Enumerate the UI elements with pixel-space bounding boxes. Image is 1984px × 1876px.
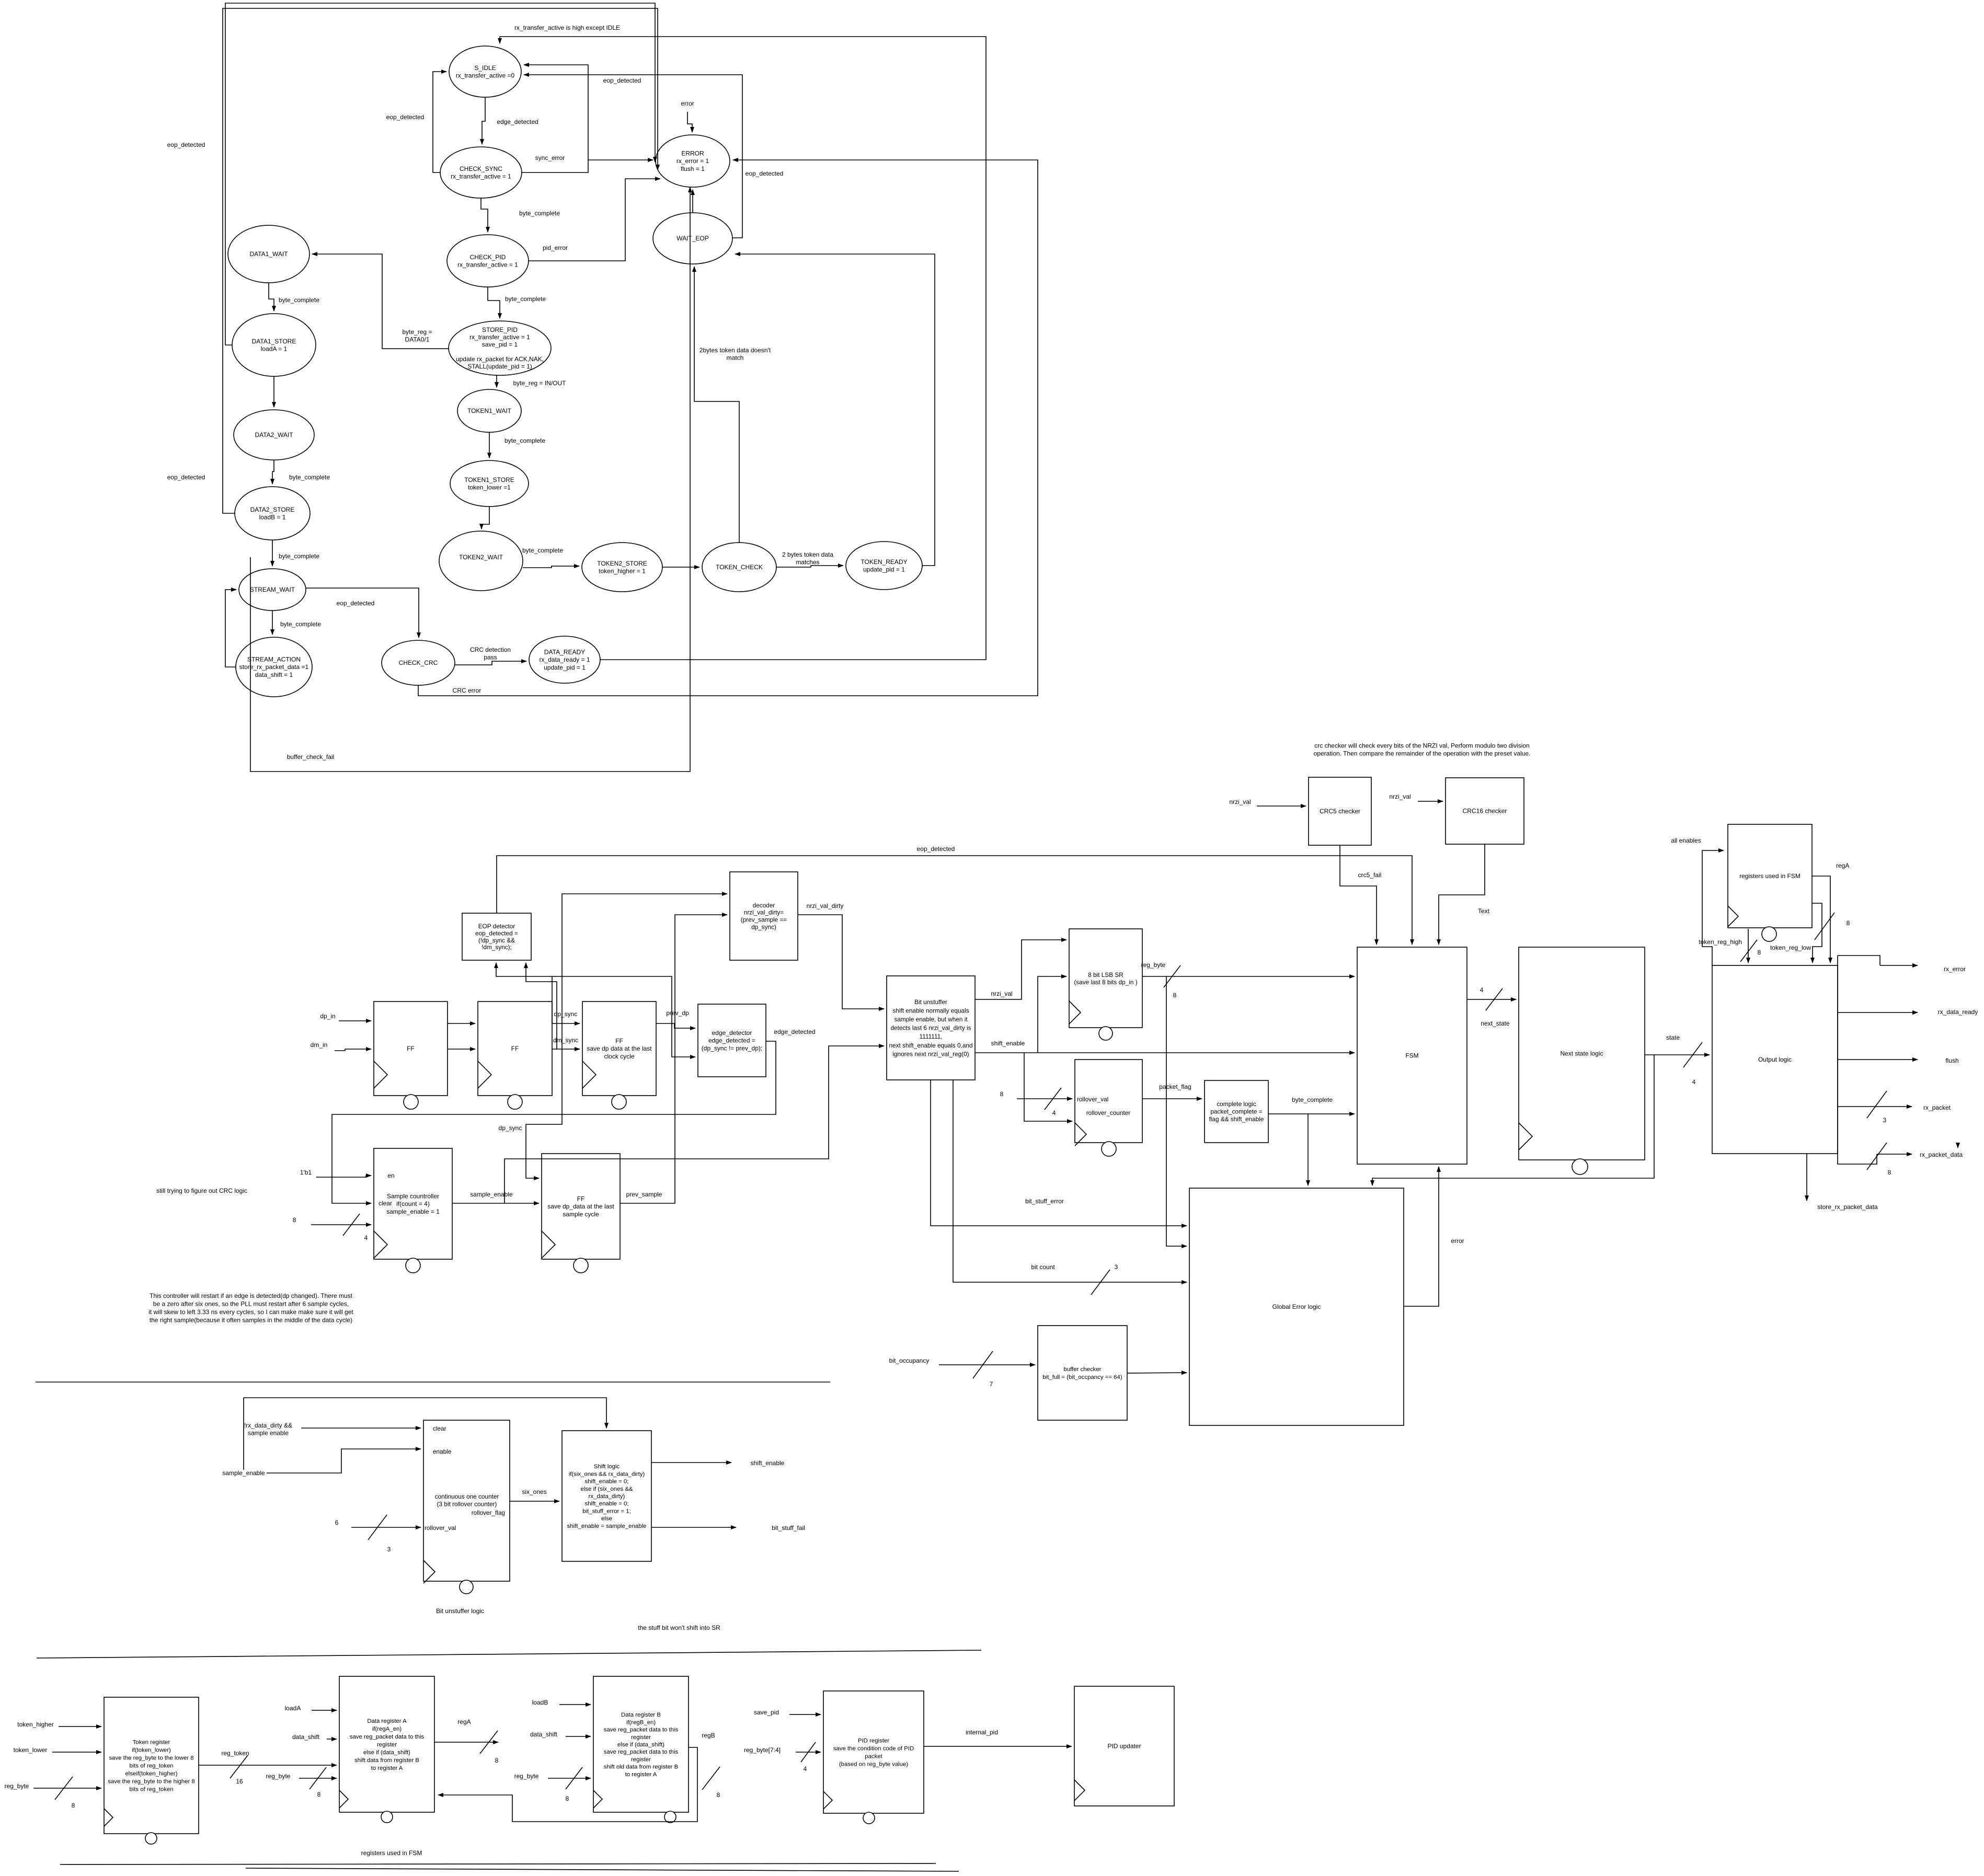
register Data register B: [593, 1676, 689, 1823]
svg-text:else if (six_ones &&: else if (six_ones &&: [580, 1486, 633, 1492]
label six_ones: [522, 1488, 546, 1495]
label state: [1666, 1034, 1680, 1041]
svg-text:nrzi_val: nrzi_val: [1229, 798, 1251, 805]
flip-flop FF3 save dp data: [582, 1002, 656, 1109]
bus slash 4: [343, 1214, 360, 1236]
bus slash state: [1683, 1042, 1702, 1067]
svg-text:prev_sample: prev_sample: [626, 1191, 662, 1198]
svg-text:8: 8: [1847, 919, 1850, 927]
label byte_complete: [280, 620, 321, 628]
label rx_transfer_active is high except IDLE: [514, 24, 620, 31]
svg-text:reg_byte: reg_byte: [514, 1773, 539, 1780]
label reg_byte: [1141, 961, 1166, 969]
svg-text:to register A: to register A: [371, 1765, 403, 1771]
wire DATA1_STORE to DATA2_WAIT: [273, 376, 274, 407]
wire STORE_PID to DATA1_WAIT: [312, 254, 449, 349]
block PID updater: [1074, 1686, 1174, 1806]
block EOP detector: [462, 913, 531, 960]
wire WAIT_EOP to S_IDLE eop_detected: [524, 75, 742, 238]
block CRC5 checker: [1309, 777, 1371, 845]
block Global Error logic: [1189, 1188, 1404, 1425]
wire nrzi_val to 8 bit SR: [975, 940, 1066, 999]
svg-text:byte_complete: byte_complete: [279, 553, 319, 560]
pin rollover_val: [425, 1524, 456, 1532]
state DATA_READY: [529, 636, 600, 683]
svg-text:state: state: [1666, 1034, 1680, 1041]
wire reg_byte branch to Global Error logic: [1166, 976, 1187, 1246]
separator line below bit unstuffer section: [37, 1650, 981, 1658]
label eop_detected: [746, 170, 784, 177]
flip-flop FF2: [478, 1002, 552, 1109]
wire rx_data_ready output: [1838, 1012, 1918, 1013]
svg-text:continuous one counter: continuous one counter: [435, 1493, 499, 1500]
svg-text:8: 8: [717, 1791, 720, 1799]
svg-text:CRC16 checker: CRC16 checker: [1463, 808, 1507, 815]
svg-text:byte_reg =: byte_reg =: [402, 328, 432, 336]
svg-text:to register A: to register A: [625, 1771, 657, 1778]
wire CHECK_CRC to DATA_READY: [455, 661, 526, 665]
label byte_complete: [279, 553, 319, 560]
svg-text:edge_detected: edge_detected: [774, 1028, 815, 1035]
label rx_error: [1944, 965, 1966, 973]
svg-text:DATA0/1: DATA0/1: [405, 336, 430, 343]
label continuous one counter: [435, 1493, 499, 1508]
label nrzi_val: [991, 990, 1012, 997]
state TOKEN_CHECK: [702, 543, 776, 592]
wire 1'b1 to en: [316, 1176, 371, 1177]
svg-text:all enables: all enables: [1671, 837, 1701, 844]
label eop_detected: [337, 600, 375, 607]
wire CHECK_CRC CRC error to ERROR: [418, 160, 1038, 696]
wire rx_error output: [1880, 965, 1918, 966]
svg-text:flush: flush: [1945, 1057, 1958, 1064]
wire next_state FSM to Next state logic: [1467, 999, 1516, 1000]
state DATA2_WAIT: [234, 410, 314, 460]
svg-text:byte_complete: byte_complete: [279, 296, 319, 304]
label CRC error: [453, 687, 481, 694]
label 8: [1847, 919, 1850, 927]
svg-text:regA: regA: [457, 1718, 471, 1725]
svg-text:1'b1: 1'b1: [300, 1169, 312, 1176]
svg-text:else: else: [601, 1516, 612, 1522]
svg-text:packet: packet: [865, 1754, 882, 1760]
bus slash regA: [1815, 913, 1834, 940]
svg-text:store_rx_packet_data: store_rx_packet_data: [1817, 1203, 1878, 1211]
svg-text:update_pid = 1: update_pid = 1: [544, 664, 586, 671]
separator line bottom second: [246, 1868, 959, 1871]
svg-text:if(count = 4): if(count = 4): [396, 1200, 430, 1207]
label byte_complete: [1292, 1096, 1333, 1103]
svg-text:byte_complete: byte_complete: [522, 547, 563, 554]
label 8: [1173, 992, 1177, 999]
label 8: [495, 1757, 499, 1764]
label reg_byte[7:4]: [744, 1746, 781, 1754]
svg-text:4: 4: [1692, 1078, 1696, 1086]
label eop_detected: [603, 77, 641, 84]
label token_reg_low: [1770, 944, 1811, 951]
svg-text:next_state: next_state: [1481, 1020, 1510, 1027]
wire reg_byte 7_4 into PID register: [796, 1752, 821, 1753]
state S_IDLE: [449, 46, 521, 97]
wire loop to S_IDLE right upper: [524, 65, 588, 160]
wire dp_sync up to decoder: [562, 894, 727, 1023]
svg-text:detects last 6 nrzi_val_dirty: detects last 6 nrzi_val_dirty is: [890, 1025, 971, 1032]
block 8 bit LSB SR: [1069, 929, 1142, 1040]
bus slash 8: [309, 1767, 326, 1789]
pin en: [387, 1172, 394, 1179]
wire sample_enable up to Shift logic: [244, 1398, 606, 1470]
svg-text:internal_pid: internal_pid: [966, 1729, 998, 1736]
svg-text:shift_enable: shift_enable: [991, 1040, 1025, 1047]
state CHECK_PID: [447, 235, 529, 287]
label CRC detection pass: [470, 646, 511, 661]
wire bit_stuff_fail output: [651, 1527, 736, 1528]
label 3: [1115, 1263, 1118, 1271]
wire clear input: [301, 1428, 421, 1429]
bus slash rx_packet: [1867, 1091, 1887, 1118]
state TOKEN_READY: [846, 542, 922, 590]
label 8: [317, 1791, 321, 1798]
svg-text:Sample countroller: Sample countroller: [387, 1193, 439, 1200]
pin clear: [433, 1425, 446, 1432]
svg-text:DATA2_WAIT: DATA2_WAIT: [255, 431, 293, 439]
svg-text:buffer checker: buffer checker: [1064, 1366, 1102, 1373]
wire bit_occupancy into buffer checker: [939, 1364, 1035, 1365]
label data_shift: [530, 1731, 558, 1738]
wire all enables into registers: [1702, 850, 1724, 965]
wire rollover_val input: [351, 1527, 421, 1528]
svg-text:Next state logic: Next state logic: [1560, 1050, 1603, 1057]
wire buffer_check_fail to ERROR: [250, 187, 690, 772]
svg-text:bits of reg_token: bits of reg_token: [129, 1787, 173, 1793]
label next_state: [1481, 1020, 1510, 1027]
svg-text:error: error: [681, 100, 694, 107]
pin clear: [379, 1200, 392, 1207]
wire bit_full buffer checker to Global Error logic: [1127, 1373, 1187, 1373]
label rx_packet: [1923, 1104, 1951, 1111]
svg-text:8: 8: [495, 1757, 499, 1764]
svg-text:(prev_sample ==: (prev_sample ==: [741, 916, 787, 924]
label dp_sync: [499, 1124, 522, 1132]
label byte_reg = DATA0/1: [402, 328, 432, 343]
svg-text:1111111,: 1111111,: [920, 1033, 943, 1040]
svg-text:reg_byte: reg_byte: [5, 1782, 29, 1790]
svg-text:CRC error: CRC error: [453, 687, 481, 694]
bus slash regB 8: [702, 1767, 720, 1790]
register PID register: [823, 1691, 924, 1824]
wire prev_dp FF3 to edge_detector: [656, 1023, 695, 1028]
label byte_reg = IN/OUT: [513, 379, 566, 387]
arrow mark above rx_packet_data: [1957, 1145, 1958, 1148]
wire eop_detected EOP detector to FSM: [497, 856, 1412, 945]
label 4: [364, 1234, 368, 1241]
label byte_complete: [289, 474, 330, 481]
block Shift logic: [562, 1431, 651, 1561]
label reg_byte: [5, 1782, 29, 1790]
label nrzi_val: [1389, 793, 1410, 800]
wire regB feedback to Data register A: [438, 1747, 697, 1822]
svg-text:else if (data_shift): else if (data_shift): [617, 1742, 664, 1748]
wire rollover_val bus into sample controller: [311, 1224, 371, 1225]
label bit_stuff_error: [1025, 1198, 1064, 1205]
svg-text:byte_complete: byte_complete: [504, 437, 545, 444]
svg-text:save the reg_byte to the highe: save the reg_byte to the higher 8: [108, 1779, 195, 1785]
register Data register A: [339, 1676, 434, 1823]
block Bit unstuffer: [887, 976, 975, 1080]
svg-text:loadA = 1: loadA = 1: [261, 346, 288, 353]
label 16: [236, 1778, 243, 1785]
svg-text:sample_enable = 1: sample_enable = 1: [386, 1208, 440, 1215]
label 2bytes token data doesn't match: [699, 347, 771, 362]
svg-text:it will skew to left 3.33 ns e: it will skew to left 3.33 ns every cycle…: [148, 1308, 353, 1316]
svg-text:CRC5 checker: CRC5 checker: [1320, 808, 1360, 815]
svg-text:eop_detected: eop_detected: [167, 141, 205, 148]
label 8: [1758, 949, 1761, 956]
block FSM: [1357, 947, 1467, 1164]
svg-text:eop_detected: eop_detected: [386, 113, 425, 121]
wire reg_byte into A: [299, 1778, 337, 1779]
bus slash 3: [1091, 1270, 1110, 1295]
label shift_enable: [991, 1040, 1025, 1047]
svg-text:STALL(update_pid = 1): STALL(update_pid = 1): [467, 363, 532, 370]
svg-text:ignores next nrzi_val_reg(0): ignores next nrzi_val_reg(0): [892, 1050, 969, 1057]
wire regA registers to Output logic: [1812, 876, 1830, 963]
wire bit count to Global Error logic: [953, 1080, 1187, 1282]
bus slash 4: [801, 1742, 816, 1762]
svg-text:4: 4: [1052, 1109, 1056, 1117]
label 4: [1052, 1109, 1056, 1117]
wire packet_flag to complete logic: [1142, 1098, 1202, 1099]
bus slash reg_byte: [1164, 965, 1180, 987]
label regA: [457, 1718, 471, 1725]
wire WAIT_EOP to ERROR: [692, 190, 693, 213]
label byte_complete: [519, 210, 560, 217]
svg-text:reg_byte: reg_byte: [266, 1773, 291, 1780]
svg-text:16: 16: [236, 1778, 243, 1785]
state TOKEN2_WAIT: [439, 531, 523, 591]
label regA: [1836, 862, 1849, 869]
caption registers used in FSM: [361, 1849, 422, 1857]
wire state feedback to Global Error logic: [1372, 1055, 1654, 1186]
label byte_complete: [505, 295, 546, 303]
svg-text:STREAM_WAIT: STREAM_WAIT: [250, 586, 295, 593]
svg-text:shift_enable: shift_enable: [751, 1459, 785, 1467]
svg-text:FSM: FSM: [1405, 1052, 1418, 1060]
wire STREAM_WAIT to STREAM_ACTION byte_complete: [272, 611, 273, 635]
svg-text:rx_transfer_active = 1: rx_transfer_active = 1: [451, 173, 511, 180]
label 8: [717, 1791, 720, 1799]
state WAIT_EOP: [653, 213, 732, 264]
svg-text:rx_transfer_active = 1: rx_transfer_active = 1: [457, 261, 518, 269]
svg-text:2bytes token data doesn't: 2bytes token data doesn't: [699, 347, 771, 354]
svg-text:rx_data_dirty): rx_data_dirty): [589, 1493, 625, 1500]
label token_lower: [14, 1746, 48, 1754]
wire bit_stuff_error to Global Error logic: [931, 1080, 1187, 1226]
wire rx_packet_data output: [1877, 1154, 1912, 1155]
label rollover_counter: [1086, 1109, 1131, 1117]
pin rollover_flag: [472, 1509, 505, 1516]
wire CHECK_SYNC to S_IDLE eop_detected: [433, 72, 446, 172]
svg-text:TOKEN1_STORE: TOKEN1_STORE: [464, 476, 514, 484]
label 8: [566, 1795, 569, 1802]
wire rollover_val into rollover counter: [1017, 1098, 1072, 1099]
svg-text:STREAM_ACTION: STREAM_ACTION: [247, 656, 301, 663]
svg-text:the stuff bit won't shift into: the stuff bit won't shift into SR: [638, 1624, 720, 1631]
svg-text:rx_error = 1: rx_error = 1: [676, 157, 709, 165]
svg-text:Bit unstuffer: Bit unstuffer: [914, 998, 947, 1006]
wire DATA1_WAIT to DATA1_STORE byte_complete: [269, 283, 274, 311]
block buffer checker: [1038, 1326, 1127, 1420]
svg-text:shift_enable = sample_enable: shift_enable = sample_enable: [567, 1523, 647, 1529]
svg-text:byte_complete: byte_complete: [1292, 1096, 1333, 1103]
svg-text:packet_complete =: packet_complete =: [1210, 1108, 1262, 1115]
wire data_shift into B: [566, 1736, 591, 1737]
svg-text:pass: pass: [484, 654, 497, 661]
svg-text:token_lower =1: token_lower =1: [468, 484, 511, 491]
svg-text:DATA1_STORE: DATA1_STORE: [252, 338, 296, 345]
label eop_detected: [917, 845, 955, 853]
label 1'b1: [300, 1169, 312, 1176]
wire output bundle column: [1838, 956, 1880, 1164]
label dp_sync: [554, 1010, 578, 1018]
block Sample countroller: [374, 1148, 452, 1273]
svg-text:dp_in: dp_in: [320, 1012, 335, 1020]
label buffer_check_fail: [287, 753, 335, 761]
svg-text:DATA2_STORE: DATA2_STORE: [250, 506, 295, 513]
svg-text:Bit unstuffer logic: Bit unstuffer logic: [436, 1607, 484, 1615]
label eop_detected: [167, 141, 205, 148]
wire sample_enable to FF4: [452, 1203, 539, 1204]
svg-text:loadB: loadB: [532, 1699, 548, 1706]
svg-text:register: register: [377, 1742, 397, 1748]
svg-text:dm_in: dm_in: [311, 1041, 328, 1049]
svg-text:DATA_READY: DATA_READY: [544, 649, 585, 656]
svg-text:8: 8: [566, 1795, 569, 1802]
svg-text:FF: FF: [615, 1038, 623, 1045]
svg-text:dp_sync: dp_sync: [499, 1124, 522, 1132]
svg-text:regA: regA: [1836, 862, 1849, 869]
svg-text:rx_transfer_active =0: rx_transfer_active =0: [456, 72, 515, 79]
svg-text:prev_dp: prev_dp: [666, 1009, 689, 1017]
svg-text:loadB = 1: loadB = 1: [259, 514, 285, 521]
wire save_pid: [789, 1714, 821, 1715]
label token_reg_high: [1699, 938, 1742, 946]
svg-text:if(six_ones && rx_data_dirty): if(six_ones && rx_data_dirty): [569, 1471, 645, 1477]
label reg_token: [221, 1750, 249, 1757]
svg-text:FF: FF: [511, 1045, 519, 1052]
state DATA2_STORE: [235, 487, 310, 540]
label 4: [1692, 1078, 1696, 1086]
svg-text:clear: clear: [379, 1200, 392, 1207]
svg-text:eop_detected: eop_detected: [167, 474, 205, 481]
block decoder: [730, 872, 798, 960]
svg-text:TOKEN_READY: TOKEN_READY: [861, 558, 907, 566]
svg-text:byte_complete: byte_complete: [289, 474, 330, 481]
svg-text:store_rx_packet_data =1: store_rx_packet_data =1: [239, 663, 309, 671]
label Text: [1478, 907, 1490, 915]
wire error Global Error logic to FSM: [1404, 1167, 1439, 1306]
svg-text:rollover_counter: rollover_counter: [1086, 1109, 1131, 1117]
wire data_shift into A: [327, 1739, 337, 1740]
wire flush output: [1838, 1059, 1918, 1060]
wire nrzi_val into CRC16 checker: [1418, 801, 1443, 802]
wire sample_enable branch to Bit unstuffer: [504, 1046, 884, 1203]
svg-text:reg_byte[7:4]: reg_byte[7:4]: [744, 1746, 781, 1754]
label data_shift: [292, 1733, 320, 1741]
svg-text:edge_detector: edge_detector: [712, 1029, 752, 1037]
wire FF1 to FF2 dp: [448, 1023, 475, 1024]
wire loadA: [312, 1710, 337, 1711]
separator line bottom: [60, 1863, 936, 1865]
svg-text:CHECK_PID: CHECK_PID: [470, 254, 506, 261]
label 7: [990, 1380, 993, 1388]
svg-text:pid_error: pid_error: [543, 244, 568, 251]
svg-text:bit_occupancy: bit_occupancy: [889, 1357, 930, 1364]
svg-text:sample enable: sample enable: [248, 1430, 289, 1437]
state ERROR: [656, 135, 730, 187]
wire DATA2_STORE to ERROR eop_detected inner: [223, 8, 658, 513]
svg-text:bit_stuff_error = 1;: bit_stuff_error = 1;: [582, 1508, 631, 1514]
svg-text:en: en: [387, 1172, 394, 1179]
svg-text:shift old data from register B: shift old data from register B: [604, 1764, 678, 1770]
label 4: [1480, 986, 1484, 994]
label store_rx_packet_data: [1817, 1203, 1878, 1211]
bus slash 7: [973, 1351, 993, 1378]
label rx_packet_data: [1920, 1151, 1963, 1158]
svg-text:register: register: [631, 1734, 651, 1741]
note sample controller description: [148, 1292, 353, 1323]
wire dp_in: [339, 1020, 371, 1021]
svg-text:data_shift: data_shift: [530, 1731, 558, 1738]
svg-text:Text: Text: [1478, 907, 1490, 915]
svg-text:save reg_packet data to this: save reg_packet data to this: [604, 1727, 679, 1733]
block continuous one counter: [423, 1420, 510, 1594]
wire FF1 to FF2 dm: [448, 1049, 475, 1050]
svg-text:(dp_sync != prev_dp);: (dp_sync != prev_dp);: [702, 1044, 762, 1052]
state CHECK_CRC: [382, 640, 455, 685]
wire STORE_PID to TOKEN1_WAIT: [496, 375, 497, 387]
svg-text:save reg_packet data to this: save reg_packet data to this: [350, 1734, 425, 1740]
svg-text:This controller will restart i: This controller will restart if an edge …: [150, 1292, 353, 1299]
label regB: [702, 1732, 715, 1739]
svg-text:bit count: bit count: [1031, 1263, 1055, 1271]
svg-text:be a zero after six ones, so t: be a zero after six ones, so the PLL mus…: [153, 1300, 349, 1308]
svg-text:match: match: [727, 354, 744, 362]
svg-text:edge_detected: edge_detected: [497, 118, 538, 125]
svg-text:enable: enable: [433, 1448, 452, 1455]
label sample_enable: [470, 1191, 513, 1198]
svg-text:nrzi_val_dirty: nrzi_val_dirty: [807, 902, 844, 910]
wire shift_enable branch to 8 bit SR: [1038, 976, 1066, 1053]
svg-text:3: 3: [387, 1546, 391, 1553]
label flush: [1945, 1057, 1958, 1064]
svg-text:flag && shift_enable: flag && shift_enable: [1209, 1115, 1264, 1123]
svg-text:STORE_PID: STORE_PID: [482, 326, 518, 333]
wire S_IDLE to CHECK_SYNC edge_detected: [482, 97, 485, 144]
svg-text:edge_detected =: edge_detected =: [708, 1037, 755, 1044]
svg-text:CHECK_CRC: CHECK_CRC: [399, 659, 438, 666]
svg-text:save reg_packet data to this: save reg_packet data to this: [604, 1749, 679, 1755]
wire rx_packet output: [1838, 1106, 1912, 1107]
svg-text:rollover_flag: rollover_flag: [472, 1509, 505, 1516]
label !rx_data_dirty && sample enable: [244, 1422, 292, 1437]
block complete logic: [1205, 1080, 1268, 1143]
label eop_detected: [386, 113, 425, 121]
wire nrzi_val into CRC5 checker: [1257, 805, 1306, 807]
wire TOKEN1_WAIT to TOKEN1_STORE byte_complete: [489, 432, 490, 458]
svg-text:TOKEN2_STORE: TOKEN2_STORE: [597, 560, 647, 567]
label pid_error: [543, 244, 568, 251]
